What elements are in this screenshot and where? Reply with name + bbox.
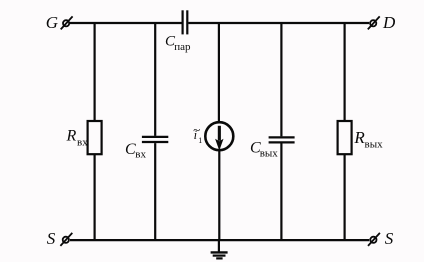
svg-text:вх: вх: [135, 149, 146, 161]
svg-text:S: S: [47, 229, 56, 248]
svg-text:1: 1: [198, 136, 202, 145]
svg-text:вых: вых: [365, 138, 384, 150]
svg-text:вых: вых: [260, 148, 279, 160]
svg-text:R: R: [66, 128, 77, 145]
svg-text:вх: вх: [77, 137, 88, 149]
svg-text:S: S: [385, 229, 394, 248]
svg-text:G: G: [46, 13, 58, 32]
svg-text:~: ~: [193, 122, 200, 137]
svg-text:пар: пар: [174, 41, 191, 53]
svg-text:D: D: [382, 13, 396, 32]
